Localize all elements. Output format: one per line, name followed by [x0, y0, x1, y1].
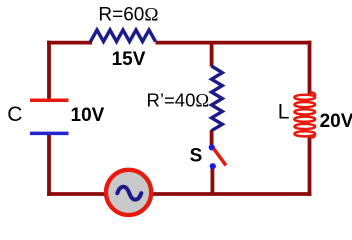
wire left upper: [47, 41, 51, 99]
switch S1 lever: [214, 149, 226, 166]
svg-text:15V: 15V: [112, 49, 146, 70]
resistor R1 zigzag: [91, 30, 156, 42]
svg-text:S: S: [190, 145, 203, 166]
resistor R2 (R') zigzag: [212, 66, 223, 131]
wire right upper: [308, 41, 312, 95]
AC source V1 sine wave: [117, 187, 141, 200]
inductor L1 top hook: [310, 92, 316, 96]
wire bottom: [47, 192, 311, 196]
svg-text:R’=40Ω: R’=40Ω: [147, 90, 210, 112]
svg-text:R=60Ω: R=60Ω: [98, 5, 158, 26]
svg-text:10V: 10V: [71, 105, 105, 126]
wire middle bottom: [210, 168, 214, 195]
wire top right of R: [156, 41, 312, 45]
switch S1 bottom contact dot: [210, 163, 216, 169]
svg-text:C: C: [7, 103, 22, 126]
svg-text:L: L: [278, 101, 290, 124]
wire middle top: [210, 43, 214, 67]
svg-text:20V: 20V: [320, 111, 352, 132]
capacitor C1 bottom plate: [30, 132, 69, 136]
wire top: [47, 41, 92, 45]
capacitor C1 top plate: [30, 98, 69, 102]
wire left lower: [47, 135, 51, 196]
wire right lower: [308, 136, 312, 196]
AC source V1 circle: [106, 170, 151, 215]
switch S1 top contact dot: [209, 144, 215, 150]
inductor L1 bottom tail: [310, 135, 315, 138]
inductor L1 coil: [294, 95, 315, 137]
wire middle mid: [210, 130, 214, 146]
